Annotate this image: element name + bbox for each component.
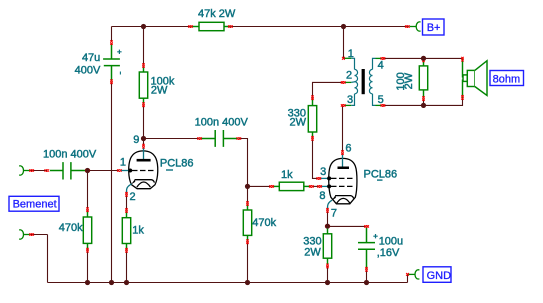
svg-text:,16V: ,16V (377, 247, 400, 259)
pinmark 330 screen bottom (311, 136, 313, 141)
connector B+ stub (410, 26, 417, 28)
svg-text:47k 2W: 47k 2W (198, 8, 236, 20)
node mid 470k / 1k (245, 184, 250, 189)
trafo pin4 teal corner (373, 58, 376, 69)
pinmark cathode junction (325, 225, 330, 227)
svg-text:1: 1 (120, 156, 126, 168)
svg-text:2: 2 (130, 191, 136, 203)
wire 100R top stub (423, 58, 425, 60)
pentode g1 dot (327, 184, 331, 188)
node speaker bottom / 100R (421, 103, 426, 108)
node rail 470kL (85, 280, 90, 285)
pinmark triode anode (142, 144, 144, 149)
pinmark 1k stopper left (269, 185, 274, 187)
polarity tick 47u (119, 72, 121, 75)
wire coupling cap to corner (239, 139, 248, 204)
trafo pin3 green (344, 104, 352, 106)
pinmark 470kL top (86, 207, 88, 212)
svg-text:6: 6 (345, 143, 351, 155)
pinmark triode cathode (125, 192, 127, 197)
transformer T1 (344, 58, 383, 105)
pentode envelope (329, 158, 357, 203)
wire 100k bottom to triode anode (143, 105, 145, 146)
pinmark 47u top (110, 40, 112, 45)
pinmark 330 screen top (311, 95, 313, 100)
node rail 100u (364, 280, 369, 285)
node rail mid470k (245, 280, 250, 285)
pinmark speaker top (461, 57, 463, 62)
triode grid pin 1 lead (121, 170, 130, 172)
pinmark trafo p5 (381, 104, 386, 106)
svg-text:Bemenet: Bemenet (13, 199, 57, 211)
pinmark B+ end (405, 25, 410, 27)
capacitor 100u 16V (358, 227, 375, 269)
pinmark pentode g1 (317, 185, 322, 187)
resistor 47k 2W (191, 22, 230, 30)
node rail 47u (109, 280, 114, 285)
pinmark 100u top (364, 225, 369, 227)
svg-text:4: 4 (378, 59, 384, 71)
pentode g1 dashed (331, 185, 354, 187)
pinmark 470kL bottom (86, 248, 88, 253)
pinmark mid470k top (246, 201, 248, 206)
triode anode lead pin 9 (143, 147, 145, 159)
node rail 1k (124, 280, 129, 285)
speaker box (467, 70, 475, 86)
wire 100k top stub (143, 27, 145, 66)
pinmark 100k bottom (142, 102, 144, 107)
pentode heater dome (337, 198, 350, 203)
pinmark trafo p3 (341, 104, 346, 106)
svg-text:B+: B+ (427, 22, 441, 34)
connector B+ (416, 22, 420, 31)
resistor 470k middle (243, 204, 251, 242)
triode anode bar (137, 159, 151, 162)
wire top rail right segment (230, 26, 407, 28)
wire 100R bottom stub (423, 99, 425, 106)
trafo pin2 green (344, 81, 352, 83)
wire top rail left segment (112, 26, 191, 28)
resistor 1k grid stopper (272, 182, 311, 190)
node top rail / 100k (141, 24, 146, 29)
triode cathode (135, 180, 155, 183)
speaker top lead (462, 59, 465, 77)
pinmark 1k triode bottom (125, 248, 127, 253)
triode cathode wedge (131, 179, 135, 185)
pinmark coupling cap right (237, 137, 242, 139)
value dash triode (166, 169, 173, 171)
wire triode cathode to 1k (126, 194, 128, 210)
pentode cathode lead pin 7 (328, 200, 333, 210)
resistor 100 2W (419, 60, 427, 97)
pinmark triode grid (117, 169, 122, 171)
trafo pin3 teal corner (351, 94, 354, 106)
pinmark 47u bottom (110, 79, 112, 84)
pinmark 1k triode top (125, 208, 127, 213)
pinmark coupling cap left (197, 137, 202, 139)
wire mid 470k bottom (247, 242, 249, 283)
wire bottom rail (48, 282, 408, 284)
speaker LS1 (463, 59, 488, 98)
connector input2 stub (24, 234, 30, 236)
svg-text:100n 400V: 100n 400V (43, 148, 97, 160)
wire 330 cathode bottom to rail (327, 266, 329, 283)
resistor 470k left (83, 210, 91, 250)
pinmark 330 cathode bottom (326, 264, 328, 269)
pinmark 100k top (142, 63, 144, 68)
triode envelope (129, 151, 158, 189)
wire grid stopper net (248, 185, 272, 187)
trafo pin5 green (376, 104, 383, 106)
triode grid dashed (132, 170, 156, 172)
wire 330 screen bottom to pin3 (313, 138, 319, 178)
wire B+ end stub (407, 26, 409, 28)
pinmark 47k left (188, 25, 193, 27)
svg-text:400V: 400V (75, 65, 101, 77)
wire 47u down to bottom rail (111, 82, 113, 283)
node pentode cathode dot top (325, 224, 330, 229)
pinmark mid470k bottom (246, 239, 248, 244)
wire 1k to pin8 (312, 185, 320, 187)
wire 470kL bottom (87, 250, 89, 282)
svg-text:2W: 2W (304, 247, 321, 259)
wire speaker bottom rail (383, 99, 462, 106)
trafo pin1 teal corner (351, 58, 354, 69)
speaker horn (475, 61, 487, 96)
connector input1 (19, 166, 23, 175)
trafo pin1 green (344, 57, 352, 59)
svg-text:470k: 470k (252, 217, 276, 229)
svg-text:8ohm: 8ohm (493, 73, 521, 85)
triode heater dome (137, 182, 151, 187)
wire 100u bottom to rail (366, 269, 368, 282)
node triode anode (141, 136, 146, 141)
wire anode net horizontal (144, 138, 200, 140)
svg-text:PCL86: PCL86 (364, 168, 398, 180)
svg-text:1k: 1k (281, 169, 293, 181)
svg-text:100n 400V: 100n 400V (195, 116, 249, 128)
svg-text:2W: 2W (290, 116, 307, 128)
pentode anode bar (338, 167, 350, 170)
label box GND (423, 267, 451, 283)
pentode anode lead pin 6 (342, 153, 344, 166)
pinmark pentode cathode (326, 208, 328, 213)
svg-text:9: 9 (133, 134, 139, 146)
pinmark cap input left (45, 169, 50, 171)
triode cathode lead pin 2 (127, 184, 132, 194)
svg-text:47u: 47u (82, 52, 100, 64)
wire input2 down (47, 235, 49, 283)
polarity plus 47u (117, 50, 121, 54)
svg-text:470k: 470k (59, 222, 83, 234)
resistor 1k triode cathode (122, 211, 130, 250)
tube triode U1a PCL86 (121, 147, 158, 194)
node grid net dot top (85, 168, 90, 173)
svg-text:8: 8 (319, 190, 325, 202)
resistor 100k 2W (139, 66, 147, 105)
node speaker top / 100R (421, 56, 426, 61)
svg-text:2W: 2W (151, 85, 168, 97)
pinmark trafo p4 (381, 57, 386, 59)
connector GND stub (408, 273, 415, 275)
connector input1 stub (24, 170, 30, 172)
node top rail / trafo p1 (341, 24, 346, 29)
pinmark trafo p2 (341, 81, 346, 83)
pinmark input2 (29, 233, 34, 235)
capacitor 100n 400V (input) (50, 162, 85, 179)
pinmark pentode anode (341, 150, 343, 155)
svg-text:2W: 2W (403, 72, 415, 89)
pentode g2 dot (327, 176, 331, 180)
label box Bemenet (9, 196, 59, 211)
svg-text:1k: 1k (132, 224, 144, 236)
wire trafo p3 to pentode anode (342, 105, 344, 152)
pentode g2 lead pin 3 (320, 177, 329, 179)
label box B+ (423, 19, 445, 35)
svg-text:2: 2 (346, 70, 352, 82)
trafo pin2 teal tap (351, 81, 355, 84)
pinmark input1 (29, 169, 34, 171)
triode grid dot (128, 169, 132, 173)
label box 8ohm (490, 71, 524, 86)
connector input2 (19, 230, 23, 239)
pinmark 1k stopper right (309, 185, 314, 187)
trafo pin5 teal corner (373, 94, 376, 106)
svg-text:1: 1 (348, 48, 354, 60)
speaker terminal notch (463, 75, 467, 82)
pinmark 47k right (228, 25, 233, 27)
capacitor 47u 400V (103, 44, 120, 81)
wire speaker top rail (383, 57, 462, 59)
polarity plus 100u (373, 234, 377, 238)
wire input2 horizontal (30, 234, 48, 236)
pinmark trafo p1 (342, 57, 345, 60)
svg-text:7: 7 (331, 208, 337, 220)
node grid net / 470kL (85, 168, 90, 173)
pentode cathode (335, 196, 353, 199)
resistor 330 2W screen (308, 98, 316, 138)
svg-text:PCL86: PCL86 (160, 158, 194, 170)
svg-text:3: 3 (347, 94, 353, 106)
trafo primary winding (355, 69, 358, 94)
value dash pentode (377, 179, 383, 181)
pinmark 100u bottom (365, 267, 367, 272)
wire 47u top stub (111, 27, 113, 43)
pinmark 100R top (422, 58, 424, 63)
trafo secondary winding (369, 69, 372, 94)
pentode g1 lead pin 8 (320, 185, 329, 187)
svg-text:3: 3 (320, 166, 326, 178)
pinmark grid junction (85, 169, 90, 171)
wire cathode net to 100u (328, 225, 367, 227)
pinmark GND end (406, 273, 409, 276)
pentode g2 dashed (331, 177, 354, 179)
wire input1 to cap (30, 170, 47, 172)
tube pentode U1b PCL86 (320, 153, 357, 210)
wire 1k bottom to rail (126, 250, 128, 282)
wire 330 screen top to trafo p2 (313, 82, 344, 98)
node speaker top dot top (421, 56, 426, 61)
svg-text:GND: GND (427, 270, 452, 282)
trafo pin4 green (376, 57, 383, 59)
capacitor 100n 400V (coupling) (200, 130, 239, 147)
resistor 330 2W cathode (323, 229, 331, 266)
connector GND (415, 270, 419, 279)
node rail 330c (325, 280, 330, 285)
wire B+ drop to trafo p1 (343, 27, 345, 59)
wire pentode cathode down (327, 210, 329, 226)
wire 470kL top (87, 171, 89, 210)
speaker bottom lead (462, 80, 465, 98)
node pentode cathode (325, 224, 330, 229)
pinmark speaker bottom (461, 95, 463, 100)
wire GND riser (407, 274, 409, 282)
trafo core (362, 69, 365, 94)
pinmark 100R bottom (422, 96, 424, 101)
svg-text:100u: 100u (379, 235, 403, 247)
pentode cathode wedge (332, 195, 336, 201)
wire grid net to triode (88, 170, 120, 172)
pinmark pentode g2 (317, 177, 322, 179)
